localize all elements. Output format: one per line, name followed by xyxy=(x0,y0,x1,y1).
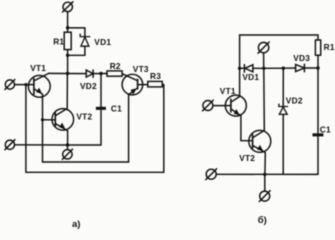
wire R3 right feedback loop to VT1 base xyxy=(26,85,164,173)
svg-text:VD2: VD2 xyxy=(80,81,97,91)
wire node down to C1 xyxy=(317,68,319,133)
terminal bottom-left xyxy=(5,140,15,150)
wire VT2 emitter down xyxy=(67,131,69,145)
terminal top (plus input) xyxy=(63,2,73,12)
wire VT1 emitter down xyxy=(42,94,44,120)
resistor R3 xyxy=(148,81,162,87)
svg-text:R3: R3 xyxy=(150,71,161,81)
svg-text:C1: C1 xyxy=(111,104,122,114)
node junction under terminal xyxy=(262,67,265,70)
node bottom junction xyxy=(263,173,266,176)
wire R1 to node xyxy=(67,50,69,56)
wire terminal to rail xyxy=(263,53,265,69)
wire VT2 collector up to rail xyxy=(66,74,68,109)
resistor R1 xyxy=(315,40,320,55)
capacitor C1 xyxy=(96,107,106,110)
terminal bottom-left b xyxy=(206,169,217,180)
terminal ground b xyxy=(259,191,270,202)
svg-text:R2: R2 xyxy=(110,61,121,71)
resistor R2 xyxy=(107,71,122,76)
svg-text:VT1: VT1 xyxy=(30,63,46,73)
wire rail to VD2 branch xyxy=(264,67,284,69)
wire terminal to VT1 base xyxy=(15,84,34,86)
terminal ground a xyxy=(62,149,72,159)
node base VT1 xyxy=(24,83,27,86)
node junction collector rail xyxy=(66,72,69,75)
wire bottom left to terminal xyxy=(14,144,67,146)
node junction top xyxy=(66,26,69,29)
transistor VT1 xyxy=(225,95,246,116)
wire VT3 to R3 xyxy=(143,84,148,86)
zener diode VD1 xyxy=(80,34,90,46)
wire node to R1 xyxy=(67,28,69,33)
wire R1 to node rail xyxy=(317,55,319,68)
node junction mid xyxy=(66,54,69,57)
svg-text:VT2: VT2 xyxy=(76,112,92,122)
wire junction down to C1 xyxy=(100,74,102,107)
wire junction to ground terminal xyxy=(67,145,69,150)
svg-text:VD1: VD1 xyxy=(94,37,111,47)
wire VT2 emitter to bottom rail xyxy=(264,153,266,175)
svg-text:VT2: VT2 xyxy=(239,153,255,163)
node rail right junction xyxy=(316,66,319,69)
wire junction to ground terminal b xyxy=(264,174,266,191)
svg-text:C1: C1 xyxy=(320,124,331,134)
svg-text:VD3: VD3 xyxy=(293,53,310,63)
wire VT2 collector up to rail xyxy=(263,68,266,130)
wire node to VD1 top xyxy=(68,28,85,37)
node VD2 branch junction xyxy=(282,67,285,70)
svg-text:б): б) xyxy=(258,215,267,226)
svg-text:R1: R1 xyxy=(53,36,64,46)
transistor VT2 xyxy=(52,109,74,131)
transistor VT3 xyxy=(122,74,143,95)
wire node down to collector rail xyxy=(67,55,69,73)
resistor R1 xyxy=(64,32,71,49)
node rail left junction xyxy=(238,67,241,70)
top rail wire xyxy=(240,35,318,68)
wire VT1 collector up xyxy=(239,68,241,96)
svg-text:VD1: VD1 xyxy=(242,72,259,82)
node emitter junction xyxy=(66,143,69,146)
wire terminal to VT1 base xyxy=(213,105,231,107)
svg-text:VT1: VT1 xyxy=(220,86,236,96)
terminal top b xyxy=(258,42,269,53)
diode VD1 xyxy=(240,65,264,73)
transistor VT2 xyxy=(249,130,271,152)
node VD2-R2 junction xyxy=(99,72,102,75)
wire VD1 to node xyxy=(68,46,85,55)
diode VD3 xyxy=(283,64,318,71)
wire VT1 collector to node xyxy=(49,72,68,74)
wire C1 down to bottom wire xyxy=(68,111,102,145)
svg-text:R1: R1 xyxy=(324,42,335,52)
wire C1 to bottom rail xyxy=(317,136,319,174)
wire to VT2 base xyxy=(43,119,56,121)
svg-text:VD2: VD2 xyxy=(286,96,303,106)
diode VD2 xyxy=(68,70,108,77)
transistor VT1 xyxy=(28,73,50,97)
wire top terminal to node xyxy=(67,12,69,28)
svg-text:VT3: VT3 xyxy=(133,64,149,74)
svg-text:а): а) xyxy=(72,219,80,229)
bottom rail wire xyxy=(216,173,318,175)
wire VT1 emitter to VT2 base xyxy=(241,116,253,141)
terminal input left b xyxy=(203,100,214,111)
terminal input left xyxy=(5,80,15,90)
zener diode VD2 xyxy=(279,68,288,174)
wire VT3 emitter to VT2 base loop xyxy=(43,95,129,162)
capacitor C1 xyxy=(313,133,324,136)
node VT2 base xyxy=(41,118,44,121)
